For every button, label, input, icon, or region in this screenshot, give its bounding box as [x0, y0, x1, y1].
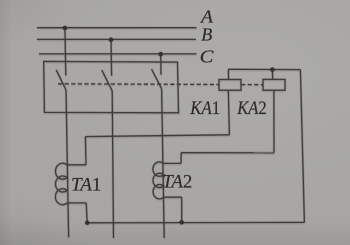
svg-text:A: A — [200, 7, 214, 27]
svg-text:TA2: TA2 — [162, 172, 192, 193]
svg-text:KA1: KA1 — [189, 98, 220, 119]
svg-text:C: C — [200, 47, 215, 67]
svg-text:TA1: TA1 — [71, 175, 101, 196]
svg-text:KA2: KA2 — [236, 98, 266, 119]
svg-text:B: B — [201, 25, 212, 45]
